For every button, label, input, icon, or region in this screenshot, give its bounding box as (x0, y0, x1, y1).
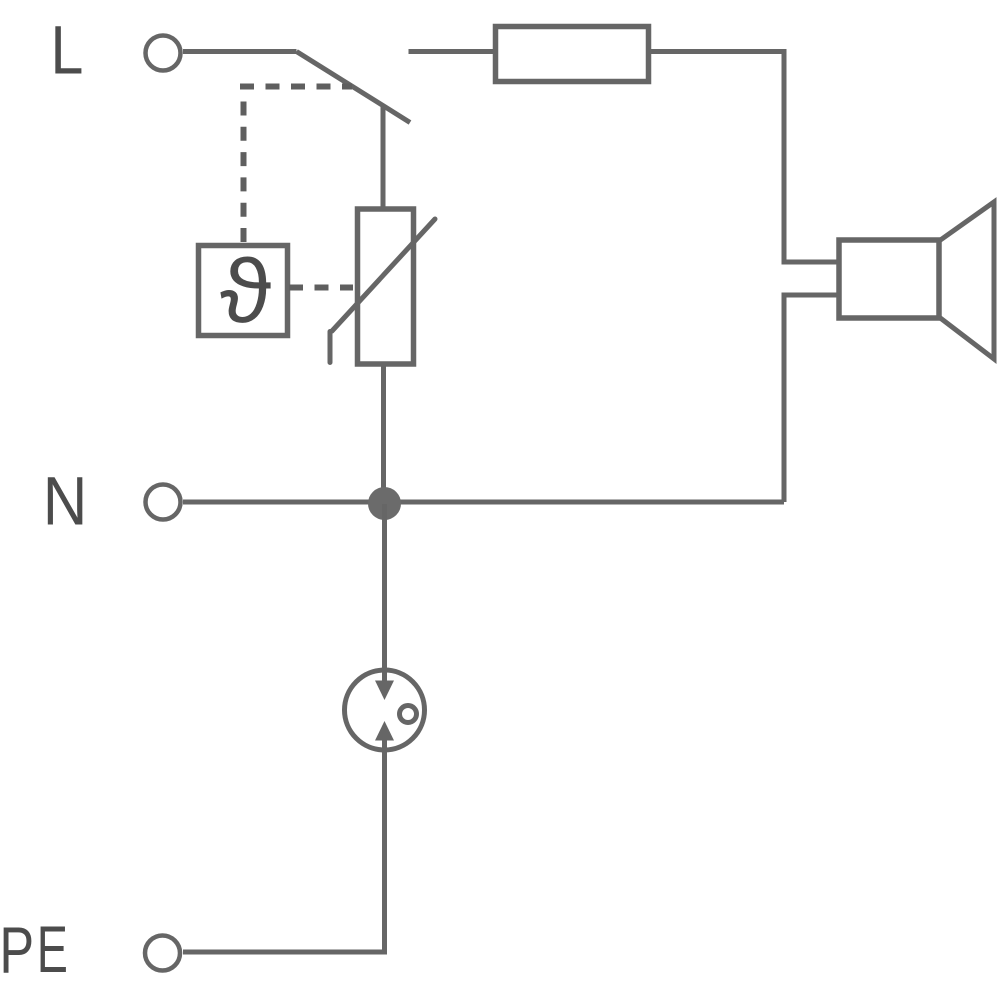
svg-text:L: L (51, 11, 84, 88)
dashed control link: thermostat to thermistor (289, 285, 353, 291)
surge arrester gas indicator circle (400, 706, 417, 723)
wire arrester bottom electrode to PE terminal (183, 740, 385, 952)
terminal L (146, 36, 181, 71)
svg-text:E: E (37, 913, 68, 987)
thermistor RT1 diagonal with foot (330, 219, 435, 363)
dashed control link: corner down to thermostat box (241, 102, 247, 244)
surge arrester top arrowhead (375, 681, 394, 701)
svg-text:N: N (43, 462, 88, 539)
wire L terminal to switch pivot (183, 49, 297, 54)
svg-text:ϑ: ϑ (220, 242, 271, 342)
resistor R1 (496, 27, 649, 82)
node N junction (368, 487, 401, 520)
dashed control link: switch to corner (240, 84, 352, 90)
speaker LS1 horn (939, 202, 994, 359)
terminal PE (145, 936, 180, 971)
wire N terminal to speaker branch (183, 500, 784, 505)
speaker LS1 body (839, 240, 939, 318)
thermistor RT1 body (358, 209, 414, 364)
svg-text:P: P (0, 913, 34, 987)
switch S1 blade (open) (297, 52, 411, 123)
wire speaker bottom terminal to N wire (784, 295, 839, 502)
terminal label L (51, 11, 84, 88)
wire switch to thermistor (381, 106, 386, 209)
thermostat box (199, 246, 288, 336)
terminal label N (43, 462, 88, 539)
wire switch fixed contact to resistor (409, 49, 496, 54)
terminal N (146, 485, 181, 520)
wire resistor to speaker top terminal (649, 52, 840, 263)
surge arrester F1 body (345, 670, 425, 750)
thermostat theta symbol (220, 242, 271, 342)
wire N junction into arrester (top electrode) (382, 504, 387, 682)
wire thermistor to N junction (381, 364, 386, 504)
terminal label PE (0, 913, 34, 987)
surge arrester bottom arrowhead (375, 721, 394, 741)
